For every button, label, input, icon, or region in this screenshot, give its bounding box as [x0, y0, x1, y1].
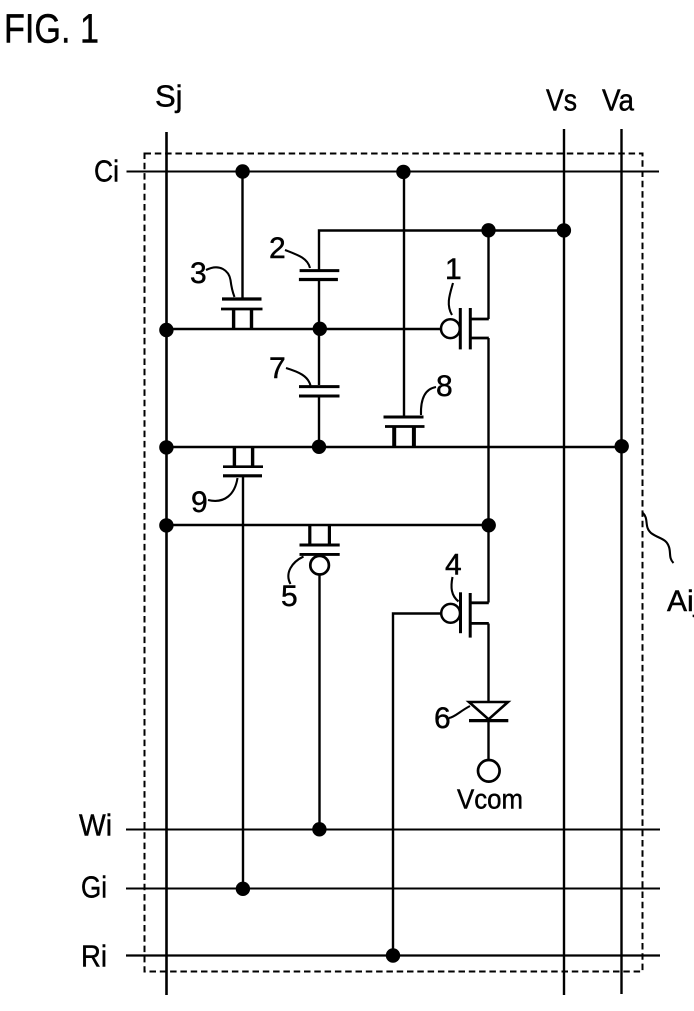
svg-text:FIG. 1: FIG. 1 [4, 6, 99, 52]
svg-text:Aij: Aij [667, 585, 694, 618]
svg-text:7: 7 [269, 352, 286, 385]
svg-text:9: 9 [191, 486, 208, 519]
svg-text:Va: Va [602, 83, 635, 118]
svg-text:Gi: Gi [81, 870, 107, 905]
svg-text:Vs: Vs [546, 83, 577, 118]
svg-text:Sj: Sj [155, 79, 183, 114]
svg-text:Ci: Ci [94, 154, 119, 189]
svg-text:1: 1 [445, 253, 462, 286]
svg-text:6: 6 [434, 702, 451, 735]
svg-text:Ri: Ri [81, 939, 107, 974]
svg-text:5: 5 [281, 580, 298, 613]
svg-text:3: 3 [190, 257, 207, 290]
svg-text:2: 2 [269, 232, 286, 265]
svg-text:4: 4 [445, 549, 462, 582]
svg-text:8: 8 [436, 370, 453, 403]
svg-text:Vcom: Vcom [457, 784, 523, 815]
svg-text:Wi: Wi [79, 808, 112, 843]
